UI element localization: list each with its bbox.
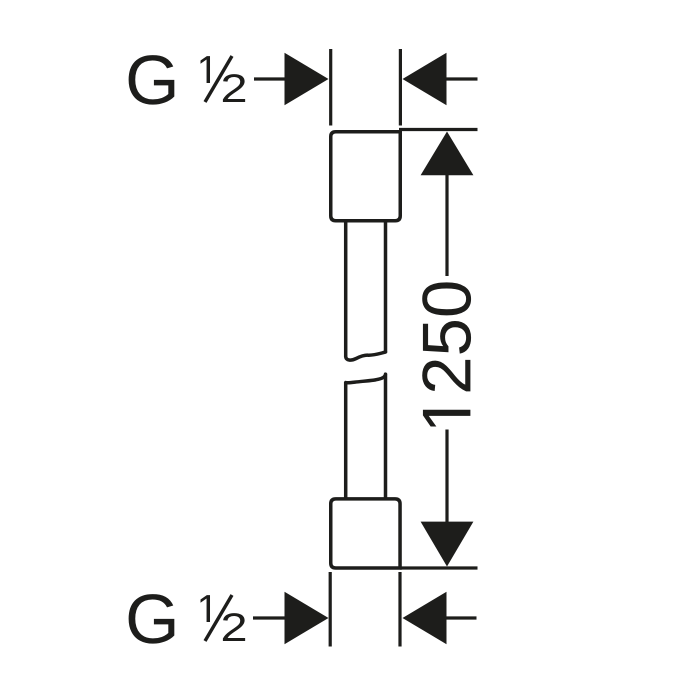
fraction numerator 1 top xyxy=(201,56,211,83)
dimension leader line right bottom xyxy=(446,616,477,619)
fraction denominator 2 bottom xyxy=(223,613,245,641)
reference line 1250 bottom xyxy=(400,566,478,569)
hose tube upper right wall xyxy=(384,220,388,353)
reference line 1250 top xyxy=(399,128,478,131)
hose tube upper break curve xyxy=(346,352,386,360)
dimension leader line left bottom xyxy=(253,616,290,619)
hose tube lower left wall xyxy=(344,383,348,500)
fraction denominator 2 top xyxy=(223,74,245,102)
extension line bottom left xyxy=(329,572,332,647)
hose connector nut bottom xyxy=(331,499,400,568)
fraction numerator 1 bottom xyxy=(201,595,211,622)
dimension line 1250 upper xyxy=(445,175,448,277)
dimension leader line right top xyxy=(446,77,478,80)
letter G top xyxy=(129,55,175,105)
hose tube lower right wall xyxy=(384,375,388,501)
dimension arrowhead 1250 up xyxy=(421,132,474,176)
hose tube upper left wall xyxy=(344,220,348,357)
dimension line 1250 lower xyxy=(445,430,448,524)
dimension arrowhead 1250 down xyxy=(421,522,474,567)
dimension text 1250 xyxy=(422,282,471,426)
hose tube lower break curve xyxy=(346,374,386,383)
dimension arrowhead right top xyxy=(403,53,447,105)
dimension arrowhead right bottom xyxy=(403,592,447,644)
letter G bottom xyxy=(129,594,175,644)
hose connector nut top xyxy=(331,132,401,221)
dimension arrowhead left bottom xyxy=(285,592,329,644)
fraction slash top xyxy=(205,56,232,102)
extension line bottom right xyxy=(398,572,401,647)
extension line top right xyxy=(399,49,402,126)
dimension leader line left top xyxy=(254,77,290,80)
dimension arrowhead left top xyxy=(285,53,329,105)
fraction slash bottom xyxy=(205,595,232,641)
extension line top left xyxy=(329,49,332,126)
